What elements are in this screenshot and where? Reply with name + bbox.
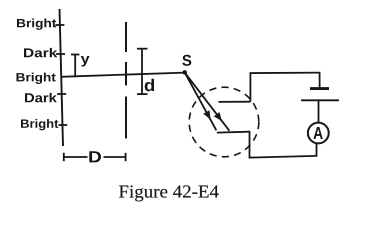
label D — [89, 151, 101, 162]
light ray 1 — [185, 72, 217, 130]
photocell envelope (dashed circle) — [189, 87, 259, 157]
arrowhead ray 1 — [203, 110, 210, 119]
wire: central axis from screen to S — [61, 73, 185, 77]
d marker bar — [141, 49, 143, 94]
slit plane (dashed barrier) — [125, 22, 127, 139]
label Dark (lower) — [25, 93, 57, 103]
tick: dark fringe lower — [57, 93, 66, 95]
cathode plate lead — [217, 131, 250, 134]
battery plate long — [301, 99, 339, 101]
battery plate short — [310, 87, 329, 90]
wire: ammeter to battery — [318, 100, 320, 122]
wire: bottom — [249, 156, 317, 158]
y marker bar — [74, 55, 76, 78]
D dimension line — [64, 156, 88, 158]
d marker bottom serif — [137, 93, 148, 95]
tick: dark fringe upper — [56, 53, 65, 55]
y marker top serif — [71, 54, 79, 56]
wire: top — [250, 72, 320, 75]
wire: up into ammeter — [316, 143, 318, 157]
arrowhead ray 2 — [214, 112, 222, 121]
tick: bright fringe top — [55, 24, 64, 26]
label Dark (upper) — [24, 48, 57, 57]
label y — [81, 56, 90, 66]
label Bright (bottom) — [21, 119, 58, 130]
tick: bright fringe bottom — [59, 124, 68, 126]
label d — [145, 79, 154, 91]
light ray 2 — [185, 72, 230, 130]
caption Figure 42-E4 — [119, 185, 219, 201]
label Bright (top) — [17, 19, 56, 30]
wire: cathode down — [249, 131, 251, 158]
label A (ammeter) — [314, 127, 323, 139]
ammeter A — [308, 123, 329, 144]
D dimension left serif — [63, 153, 65, 161]
d marker top serif — [137, 48, 148, 50]
label S — [182, 55, 191, 66]
wire: down to anode — [249, 72, 251, 102]
D dimension right serif — [125, 153, 127, 161]
anode lead — [219, 101, 251, 103]
wire: battery to top corner — [319, 73, 321, 87]
label Bright (center) — [17, 73, 56, 84]
screen (fringe plane) — [60, 9, 64, 146]
source S dot — [182, 70, 187, 75]
